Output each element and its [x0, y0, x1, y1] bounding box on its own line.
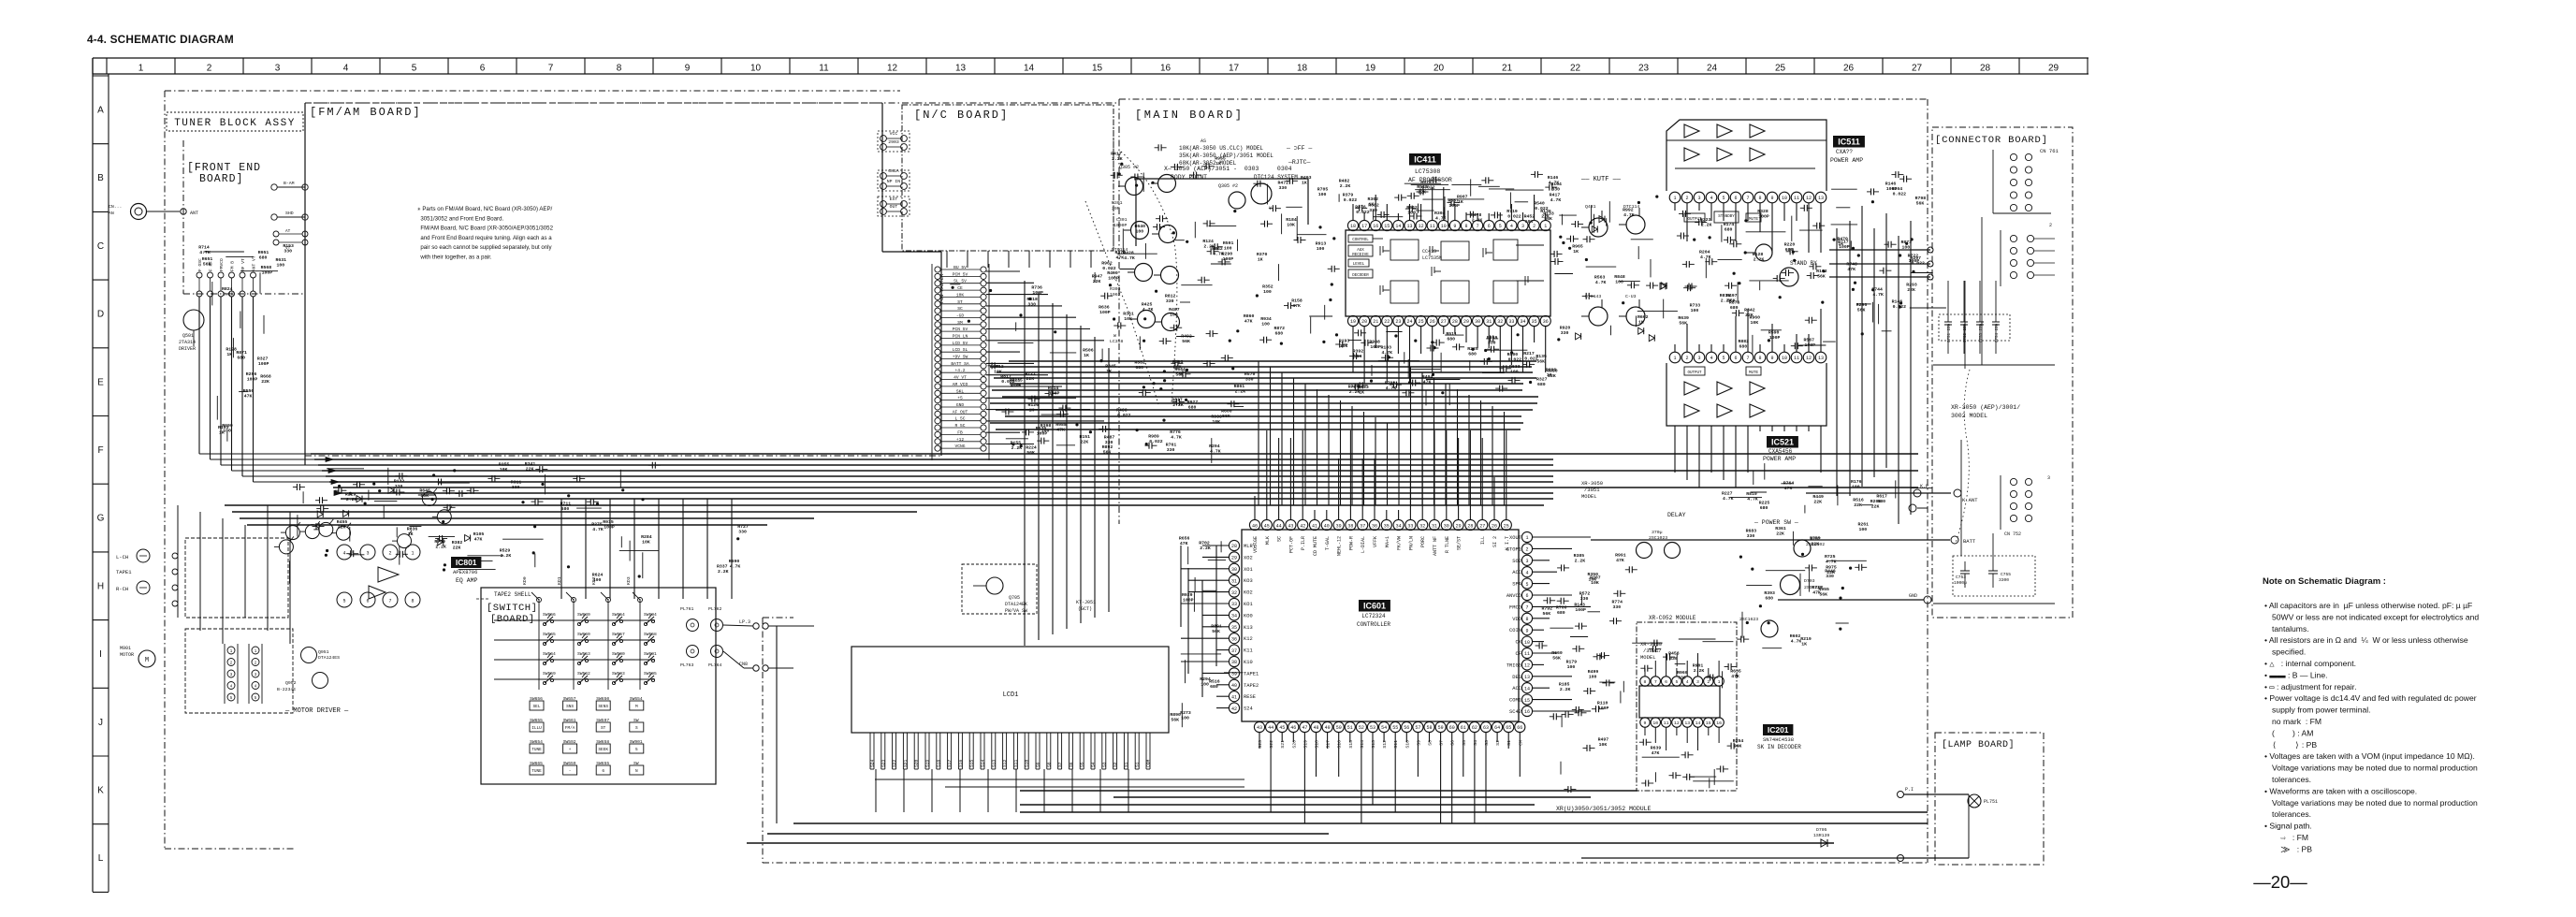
svg-text:S22: S22 [1269, 740, 1274, 749]
svg-text:LCD1: LCD1 [1003, 691, 1019, 699]
svg-text:R478: R478 [1471, 212, 1482, 218]
svg-text:MA+1: MA+1 [1385, 536, 1390, 547]
svg-text:R499: R499 [1588, 669, 1599, 675]
wire IC601 top pin 41 up [1314, 510, 1316, 519]
svg-text:100P: 100P [258, 361, 269, 367]
junction dot [1899, 305, 1901, 308]
wire lcd-down-7 [1071, 769, 1073, 812]
wire bus-mid-3 [994, 377, 1536, 379]
op LCD1 display block [851, 647, 1169, 733]
junction dot [621, 488, 624, 491]
wire IC601 top pin 33 up [1409, 477, 1411, 519]
wire segment [1187, 546, 1189, 564]
wire IC411 bottom pin 29 down [1465, 327, 1467, 342]
wire segment [1175, 240, 1185, 241]
wire segment [1792, 531, 1794, 546]
wire IC601 bottom pin 43 down [1259, 733, 1260, 749]
svg-text:22: 22 [1570, 64, 1581, 74]
wire IC601 left pin 38 [1181, 661, 1229, 662]
svg-text:13: 13 [1524, 675, 1530, 680]
capacitor C640 [1773, 278, 1778, 280]
switch SW654 [612, 622, 615, 625]
junction dot [1854, 282, 1856, 284]
wire IC601 left pin 30 [1181, 568, 1229, 570]
wire IC601 left pin 32 [1188, 591, 1229, 593]
svg-text:45: 45 [1279, 725, 1285, 731]
svg-text:18: 18 [1297, 64, 1308, 74]
svg-text:100: 100 [1615, 279, 1623, 284]
junction dot [596, 502, 599, 505]
capacitor C120 [1706, 677, 1710, 678]
junction dot [1028, 298, 1031, 300]
svg-text:CN...: CN... [109, 204, 122, 210]
wire segment [1676, 654, 1678, 666]
wire ic601-top-feed-4 [1304, 384, 1306, 505]
IC511 label [1833, 136, 1865, 148]
capacitor C375 [1100, 295, 1105, 297]
svg-text:⟨ ⟩ : PB: ⟨ ⟩ : PB [2272, 740, 2317, 750]
svg-text:LC75308: LC75308 [1415, 168, 1440, 175]
svg-text:R792: R792 [1542, 606, 1553, 612]
svg-text:— POWER SW —: — POWER SW — [1754, 519, 1798, 526]
capacitor C192 [1682, 263, 1687, 265]
diode D209 [1660, 283, 1666, 289]
wire segment [1378, 360, 1419, 362]
svg-text:DTC143: DTC143 [1585, 294, 1601, 299]
junction dot [1163, 379, 1166, 382]
svg-text:R705: R705 [1317, 187, 1329, 193]
svg-text:R690: R690 [729, 559, 740, 564]
junction dot [1738, 282, 1740, 284]
svg-text:20: 20 [1361, 319, 1367, 325]
svg-text:330: 330 [1561, 330, 1569, 336]
capacitor C754 [1995, 309, 1997, 322]
svg-text:1K: 1K [1302, 180, 1307, 185]
wire chain-out-4 [986, 316, 1076, 318]
svg-text:22K: 22K [1081, 440, 1089, 445]
junction dot [1568, 247, 1571, 250]
svg-text:COM: COM [1146, 759, 1152, 767]
wire IC521 pin 3 up [1698, 344, 1700, 352]
svg-text:MODEL: MODEL [1581, 493, 1597, 500]
svg-text:S1: S1 [1135, 762, 1141, 767]
wire IC521 pin 6 up [1735, 316, 1737, 352]
svg-text:S11: S11 [1013, 759, 1019, 767]
wire IC601 left pin 39 [1202, 672, 1229, 674]
svg-text:5: 5 [1499, 224, 1502, 229]
svg-text:3: 3 [1521, 224, 1524, 229]
svg-text:SO2: SO2 [1512, 559, 1521, 564]
svg-text:STOP1: STOP1 [1506, 546, 1521, 552]
svg-text:47K: 47K [244, 394, 253, 400]
svg-text:S6: S6 [1450, 740, 1456, 746]
wire IC511 pin 9 down [1771, 203, 1773, 253]
wire chain-out-6 [986, 340, 1104, 342]
svg-text:LP.3: LP.3 [739, 619, 750, 625]
svg-text:100P: 100P [262, 270, 273, 276]
svg-text:— ⊃FF —: — ⊃FF — [1286, 145, 1312, 152]
junction dot [1394, 334, 1397, 337]
wire segment [1560, 762, 1562, 775]
wire ic601-top-feed-20 [1492, 406, 1493, 505]
svg-text:ST: ST [601, 726, 606, 731]
svg-text:28: 28 [1467, 523, 1473, 529]
wire segment [1642, 756, 1680, 758]
svg-text:R370: R370 [1257, 252, 1268, 257]
capacitor C481 [1685, 285, 1690, 287]
wire chain-out-7 [986, 351, 1020, 353]
svg-text:R960: R960 [1677, 670, 1688, 676]
svg-text:DTA124ES: DTA124ES [318, 655, 340, 661]
capacitor C216 [1433, 342, 1437, 343]
wire bus-low-6 [333, 487, 1918, 488]
wire segment [1506, 189, 1544, 191]
svg-text:CONTROLLER: CONTROLLER [1357, 621, 1390, 628]
svg-text:R934: R934 [1260, 316, 1272, 322]
capacitor C506 [1099, 428, 1103, 429]
connector pin pair VCNG [935, 445, 940, 451]
connector CNP601 FM/AM to MAIN interconnect [931, 264, 933, 460]
wire segment [1309, 315, 1332, 317]
wire K.ANT lines [1806, 492, 1951, 494]
svg-text:R656: R656 [1179, 536, 1190, 542]
svg-text:SW658: SW658 [644, 632, 657, 637]
op-amp triangle U521-2 [1717, 382, 1732, 395]
wire IC201 pin 6 up [1666, 653, 1667, 677]
capacitor C536 [1171, 166, 1175, 167]
svg-text:R860: R860 [1244, 313, 1255, 319]
svg-text:46: 46 [1252, 523, 1258, 529]
junction dot [533, 525, 536, 528]
svg-text:2.2K: 2.2K [1560, 687, 1571, 692]
svg-text:IC511: IC511 [1838, 138, 1860, 147]
capacitor C818 [316, 508, 321, 510]
connector pin pair +12 [935, 439, 940, 444]
svg-text:22K: 22K [1813, 500, 1822, 505]
wire IC411 bottom pin 32 down [1499, 327, 1501, 372]
capacitor C353 [1480, 360, 1485, 362]
svg-text:15: 15 [1706, 720, 1711, 726]
svg-text:56K: 56K [1727, 298, 1736, 304]
svg-text:100: 100 [1263, 289, 1272, 295]
capacitor C122 [1640, 667, 1645, 669]
svg-text:R929: R929 [1182, 592, 1193, 598]
wire ic601-top-feed-18 [1468, 395, 1470, 505]
svg-text:R550: R550 [243, 388, 255, 394]
wire IC601 bottom pin 59 down [1440, 733, 1442, 823]
wire IC601 bottom pin 52 down [1361, 733, 1362, 823]
svg-text:35: 35 [1532, 319, 1537, 325]
wire segment [619, 550, 659, 552]
wire segment [1808, 486, 1822, 488]
diode D229 [317, 511, 323, 517]
junction dot [338, 485, 341, 488]
svg-text:R668: R668 [260, 374, 271, 380]
svg-text:S4: S4 [1091, 762, 1097, 767]
wire nc-down-4 [1028, 251, 1030, 268]
svg-text:S18: S18 [936, 759, 941, 767]
svg-text:S9: S9 [1036, 762, 1041, 767]
wire IC411 top pin 8 up [1465, 212, 1467, 220]
CN762 pin row 1 [2010, 235, 2016, 241]
wire segment [1561, 214, 1563, 226]
wire IC601 top pin 26 up [1493, 477, 1495, 519]
wire segment [1119, 269, 1134, 270]
svg-text:R810: R810 [1746, 491, 1757, 497]
wire swb-feed-7 [731, 499, 733, 599]
wire segment [1181, 653, 1221, 655]
arrow signal-path-3 [334, 491, 342, 496]
svg-text:22K: 22K [453, 545, 461, 550]
svg-text:6: 6 [1525, 593, 1528, 599]
svg-text:R202: R202 [1810, 536, 1821, 542]
wire segment [1209, 226, 1237, 227]
wire segment [1663, 299, 1665, 319]
connector pin pair PCN LN [935, 335, 940, 341]
wire bus-mid-4 [1010, 383, 1523, 385]
pad at connector board left y=267 [1928, 247, 1933, 253]
svg-text:S10: S10 [1404, 740, 1410, 749]
svg-text:Q305 #2: Q305 #2 [1119, 165, 1139, 170]
svg-text:XR-3050: XR-3050 [1581, 480, 1603, 487]
wire bus-bot-4 [793, 822, 1928, 824]
svg-text:APEX8706: APEX8706 [453, 569, 477, 575]
svg-text:56K: 56K [1222, 414, 1230, 419]
svg-text:C-U3: C-U3 [1625, 294, 1637, 299]
svg-text:R640: R640 [1135, 224, 1146, 229]
capacitor C591 [1602, 682, 1607, 684]
svg-text:supply from power terminal.: supply from power terminal. [2272, 706, 2371, 715]
svg-text:specified.: specified. [2272, 648, 2306, 657]
svg-text:R721: R721 [1026, 371, 1037, 377]
svg-text:5: 5 [342, 599, 345, 604]
svg-text:4: 4 [1510, 224, 1513, 229]
wire segment [216, 396, 218, 420]
wire segment [1823, 341, 1836, 342]
svg-text:S3: S3 [1484, 740, 1490, 746]
wire segment [1015, 322, 1017, 331]
svg-text:VFFK: VFFK [1373, 536, 1378, 547]
svg-text:17: 17 [1361, 224, 1367, 229]
svg-text:R845: R845 [1105, 364, 1116, 370]
wire segment [1799, 229, 1823, 231]
svg-text:R962: R962 [1101, 261, 1113, 267]
svg-text:LEVEL: LEVEL [1353, 263, 1365, 267]
svg-text:100P: 100P [1839, 244, 1850, 250]
junction dot [1151, 182, 1154, 184]
transistor Q952 [313, 673, 328, 689]
svg-text:40: 40 [1231, 683, 1237, 689]
svg-text:• All resistors are in Ω and: • All resistors are in Ω and ¼ W or less… [2264, 635, 2468, 645]
junction dot [1441, 391, 1444, 394]
junction dot [1622, 301, 1624, 304]
svg-text:48: 48 [1313, 725, 1318, 731]
wire IC521 pin 1 up [1674, 344, 1676, 352]
svg-text:680: 680 [1468, 351, 1477, 357]
svg-text:Q705: Q705 [1009, 595, 1020, 601]
svg-text:4.7K: 4.7K [1595, 280, 1607, 285]
svg-text:XR-3050: XR-3050 [1640, 641, 1662, 648]
svg-text:4: 4 [1686, 679, 1689, 685]
connector pin pair AF OUT [935, 411, 940, 416]
capacitor C993 [1571, 224, 1576, 226]
wire IC411 top pin 18 up [1352, 204, 1354, 220]
wire segment [1623, 681, 1624, 692]
wire segment [1831, 188, 1857, 190]
svg-text:R882: R882 [1739, 339, 1750, 344]
wire nc-down-2 [987, 251, 989, 268]
svg-text:S19: S19 [925, 759, 931, 767]
wire segment [418, 494, 436, 496]
svg-text:SW694: SW694 [644, 612, 657, 618]
wire bus-low-4 [326, 475, 1553, 477]
wire IC411 bottom pin 25 down [1420, 327, 1422, 354]
svg-text:100P: 100P [1223, 256, 1234, 262]
wire IC411 top pin 4 up [1510, 204, 1512, 220]
svg-text:R176: R176 [1851, 479, 1862, 485]
svg-text:OUT: OUT [890, 204, 898, 210]
svg-text:680: 680 [1135, 365, 1143, 371]
junction dot [1155, 290, 1157, 293]
svg-text:0.022: 0.022 [1117, 413, 1131, 418]
wire segment [1425, 390, 1427, 405]
svg-text:8: 8 [617, 64, 622, 74]
transistor Q516 [1780, 268, 1798, 286]
capacitor C946 [1452, 346, 1457, 348]
svg-text:M901: M901 [120, 646, 131, 651]
svg-text:330: 330 [284, 249, 292, 255]
wire segment [1534, 198, 1535, 219]
diode D663 [357, 496, 362, 502]
svg-text:R385: R385 [1574, 553, 1585, 559]
wire lcd-down-2 [931, 769, 933, 812]
junction dot [1733, 272, 1736, 275]
svg-text:CF: CF [1516, 651, 1521, 657]
op IC511 power amp upper op-amp box [1666, 120, 1826, 191]
svg-text:3: 3 [275, 64, 281, 74]
svg-text:8: 8 [1758, 196, 1761, 201]
svg-text:R516: R516 [1209, 678, 1220, 684]
wire segment [1094, 272, 1096, 283]
junction dot [1019, 313, 1022, 316]
svg-text:R153: R153 [283, 243, 294, 249]
junction dot [443, 568, 445, 571]
svg-text:R185: R185 [1559, 682, 1570, 688]
wire IC601 bottom pin 61 down [1463, 733, 1464, 777]
transistor Q926 [279, 540, 293, 554]
svg-text:S15: S15 [969, 759, 975, 767]
junction dot [1852, 288, 1855, 291]
wire ic601-top-feed-21 [1504, 412, 1506, 505]
svg-text:RESE: RESE [1244, 694, 1256, 700]
capacitor C635 [1259, 339, 1264, 341]
capacitor C977 [1737, 638, 1741, 640]
svg-text:R155: R155 [1011, 440, 1022, 445]
svg-text:4: 4 [1710, 196, 1712, 201]
capacitor C950 [1172, 401, 1177, 403]
svg-text:R646: R646 [419, 488, 430, 493]
wire segment [1836, 207, 1850, 209]
svg-text:0.022: 0.022 [1535, 206, 1549, 211]
wire segment [1703, 641, 1734, 643]
wire segment [1837, 486, 1839, 506]
svg-text:12: 12 [1674, 720, 1680, 726]
capacitor C221 [1627, 284, 1632, 286]
svg-text:56K: 56K [1171, 717, 1179, 722]
pad K.ANT [1954, 489, 1961, 497]
svg-text:1K: 1K [1084, 353, 1089, 358]
svg-text:52: 52 [1359, 725, 1364, 731]
svg-text:R311: R311 [511, 479, 522, 485]
svg-text:100P: 100P [1037, 430, 1048, 436]
wire IC601 top pin 39 up [1338, 458, 1340, 519]
connector pin pair CE [935, 287, 940, 293]
svg-text:RECEIVE: RECEIVE [1352, 254, 1369, 257]
wire segment [396, 527, 398, 537]
wire segment [1220, 541, 1222, 552]
svg-text:1: 1 [1718, 679, 1721, 685]
wire vert-bundle-4 [1080, 326, 1082, 623]
svg-text:tolerances.: tolerances. [2272, 775, 2311, 784]
junction dot [372, 483, 375, 486]
IC411 internal blocks [1390, 240, 1419, 260]
transistor Q706 [1794, 540, 1811, 557]
svg-text:9: 9 [1453, 224, 1456, 229]
capacitor C718 [1394, 196, 1399, 198]
svg-text:1K: 1K [1106, 369, 1112, 374]
junction dot [1746, 621, 1749, 624]
op-amp triangle U521-3 [1750, 382, 1765, 395]
connector pin pair LCD 5V [935, 342, 940, 348]
IC511 function boxes below pin row [1684, 213, 1705, 222]
wire IC601 bottom pin 58 down [1429, 733, 1431, 742]
svg-text:MLK: MLK [1265, 536, 1271, 545]
connector pin pair BATT SA [935, 363, 940, 369]
transistor Q705 with dashed frame [962, 564, 1037, 614]
svg-text:—— KUTF ——: —— KUTF —— [1580, 176, 1622, 183]
wire IC411 top pin 12 up [1420, 204, 1422, 220]
capacitor C432 [1390, 384, 1394, 386]
svg-text:+: + [569, 748, 572, 752]
wire segment [1878, 304, 1880, 324]
svg-text:R327: R327 [257, 357, 269, 362]
connector pin pair +4.2 [935, 370, 940, 375]
diode D786 [465, 535, 471, 542]
svg-text:4.7K: 4.7K [1213, 252, 1224, 257]
svg-text:16: 16 [1716, 720, 1722, 726]
capacitor C582 [1550, 716, 1554, 718]
svg-text:— MOTOR DRIVER —: — MOTOR DRIVER — [284, 707, 349, 715]
svg-text:R989: R989 [1148, 434, 1159, 440]
wire IC601 bottom pin 54 down [1383, 733, 1385, 742]
svg-text:47K: 47K [1180, 541, 1188, 546]
svg-text:2.2K: 2.2K [501, 553, 512, 559]
svg-text:0.022: 0.022 [1893, 304, 1907, 310]
svg-text:14: 14 [1524, 686, 1530, 691]
transistor Q708 [1761, 620, 1778, 637]
svg-text:R487: R487 [1169, 307, 1180, 313]
wire IC601 right pin 16 [1533, 710, 1591, 712]
wire swb-feed-5 [682, 499, 684, 599]
junction dot [1861, 332, 1864, 335]
svg-text:K11: K11 [1244, 648, 1253, 654]
connector pin row 5 [2010, 204, 2016, 211]
svg-text:36: 36 [1372, 523, 1377, 529]
junction dot [1510, 351, 1513, 354]
svg-text:ACC: ACC [1512, 686, 1521, 691]
capacitor C592 [1582, 295, 1587, 297]
wire right-vert x=2016 [1885, 213, 1887, 468]
